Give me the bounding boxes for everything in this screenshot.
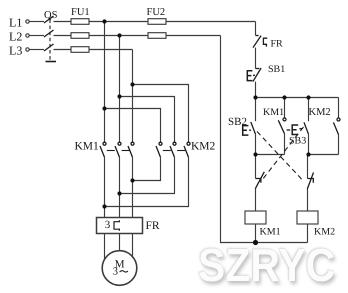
svg-text:FU1: FU1 xyxy=(71,7,90,18)
svg-text:SB2: SB2 xyxy=(228,116,247,128)
svg-text:SB1: SB1 xyxy=(268,64,285,75)
svg-text:KM1: KM1 xyxy=(75,141,100,153)
svg-text:QS: QS xyxy=(44,10,58,21)
svg-text:FR: FR xyxy=(146,220,160,232)
svg-text:KM2: KM2 xyxy=(314,227,335,238)
svg-text:KM2: KM2 xyxy=(191,141,216,153)
svg-text:KM2: KM2 xyxy=(309,107,331,118)
svg-text:SB3: SB3 xyxy=(289,136,306,147)
svg-text:KM1: KM1 xyxy=(263,107,284,118)
svg-text:FR: FR xyxy=(271,39,284,50)
svg-text:KM1: KM1 xyxy=(260,227,281,238)
svg-text:L3: L3 xyxy=(9,44,22,58)
svg-text:FU2: FU2 xyxy=(147,7,166,18)
svg-text:3: 3 xyxy=(105,219,111,231)
svg-text:L1: L1 xyxy=(9,16,22,30)
svg-text:L2: L2 xyxy=(9,30,22,44)
svg-text:3: 3 xyxy=(113,267,118,278)
